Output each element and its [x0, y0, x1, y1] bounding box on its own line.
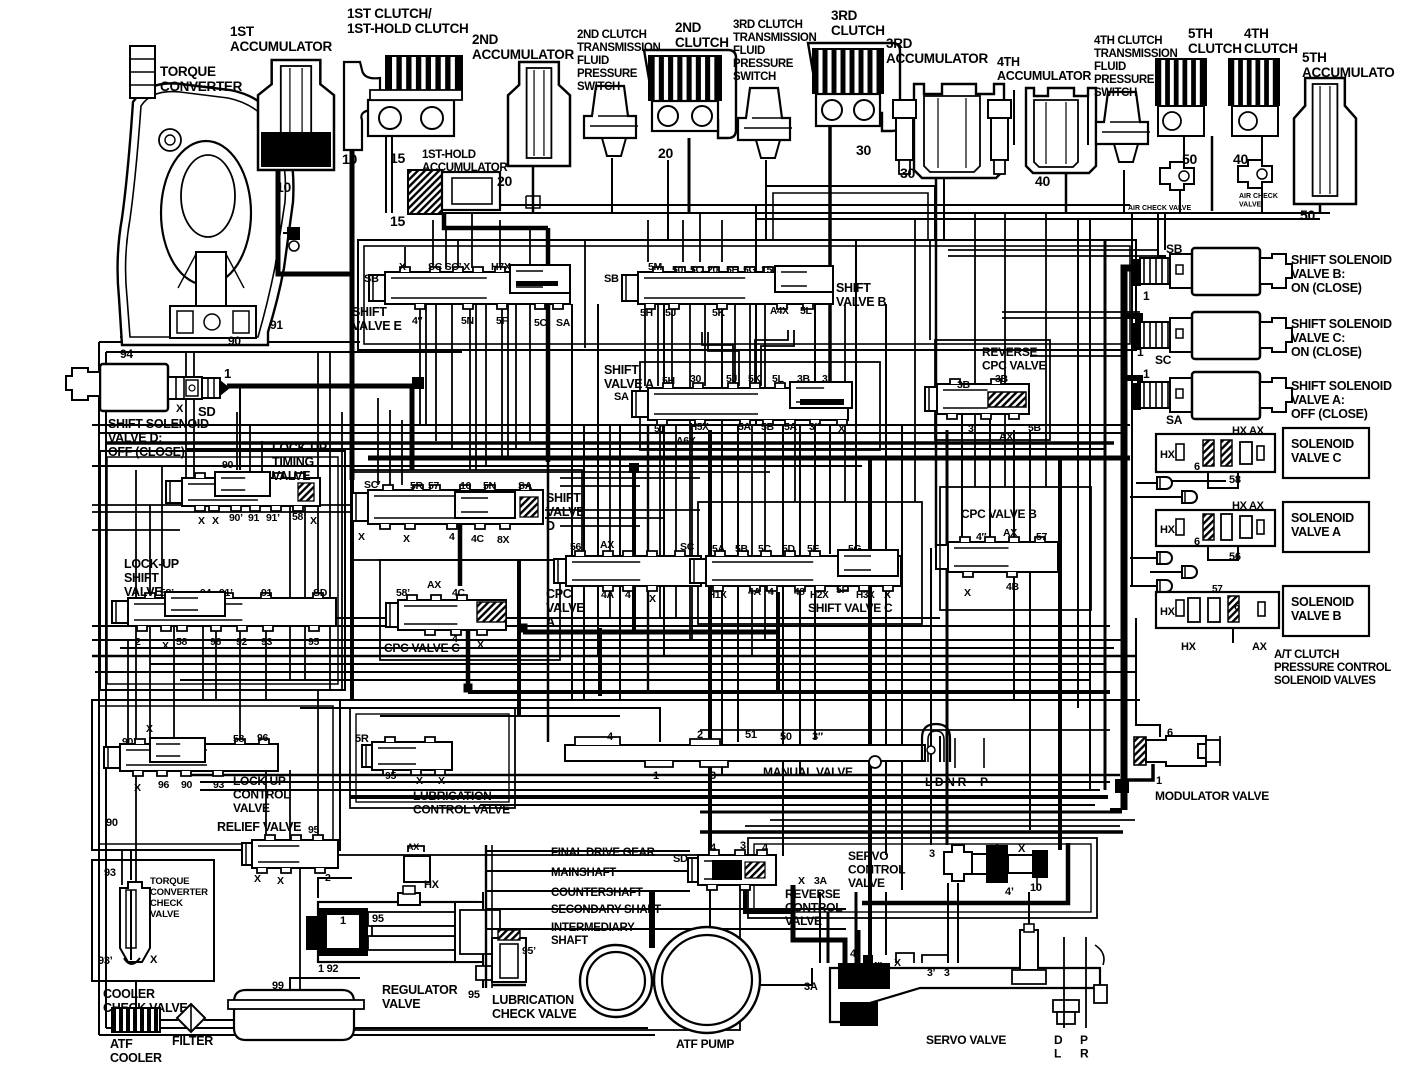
v598 [597, 304, 599, 656]
svg-text:VALVE: VALVE [382, 997, 420, 1011]
svg-text:ON (CLOSE): ON (CLOSE) [1291, 345, 1362, 359]
bus A7 [352, 471, 770, 473]
svg-text:91: 91 [248, 512, 260, 524]
svg-text:95: 95 [372, 913, 384, 925]
feeder 700 [699, 213, 701, 262]
enclosure lock-up control [92, 700, 340, 850]
left v250 [249, 425, 251, 478]
2nd accumulator [508, 62, 570, 166]
svg-text:90’: 90’ [122, 736, 136, 748]
poppet 2nd acc [526, 196, 540, 208]
svg-text:5J: 5J [665, 307, 677, 319]
svg-text:TRANSMISSION: TRANSMISSION [577, 42, 660, 54]
svg-text:96: 96 [257, 732, 269, 744]
svg-text:4A: 4A [601, 589, 615, 601]
svg-text:94: 94 [120, 347, 133, 361]
solenoid valve A label box [1283, 502, 1369, 552]
svg-text:VALVE: VALVE [233, 801, 270, 815]
servo thick L2 [827, 912, 830, 963]
lock-up timing valve spring [298, 483, 314, 501]
svg-text:TIMING: TIMING [272, 455, 314, 469]
svg-text:AX: AX [407, 842, 419, 852]
v722 [721, 304, 723, 775]
torque converter check valve [120, 882, 150, 964]
svg-text:4’: 4’ [850, 948, 859, 960]
shift solenoid valve B [1131, 248, 1292, 295]
svg-text:5H: 5H [640, 307, 653, 319]
svg-text:91: 91 [270, 318, 283, 332]
svg-text:51: 51 [745, 729, 757, 741]
left border2 [105, 352, 107, 1028]
enclosure lock-up region2 [107, 457, 338, 684]
bus C13 [380, 715, 620, 717]
svg-text:H7X: H7X [491, 261, 511, 273]
relief out95 [317, 690, 319, 840]
svg-text:1: 1 [653, 770, 659, 782]
svg-text:HX: HX [1160, 524, 1176, 536]
v1005 [1004, 213, 1006, 487]
cpcA top h1 [545, 509, 700, 511]
svg-text:VALVE A: VALVE A [604, 377, 654, 391]
svg-text:58’: 58’ [396, 587, 410, 599]
svg-text:40: 40 [1035, 173, 1050, 189]
bus C11 [180, 699, 1140, 701]
v947 thick [946, 430, 949, 845]
pipe 15 line [385, 136, 387, 213]
vE 470 [469, 304, 471, 470]
svg-text:5N: 5N [483, 480, 496, 492]
left border [98, 342, 100, 1035]
pipe 1st accumulator drop [278, 170, 352, 274]
svg-text:AIR CHECK: AIR CHECK [1239, 193, 1278, 200]
svg-text:VALVE: VALVE [546, 601, 584, 615]
v752 [751, 424, 753, 656]
servo drops [855, 892, 858, 963]
svg-text:SB: SB [1166, 242, 1183, 256]
thick 600 [598, 628, 602, 696]
svg-text:FLUID: FLUID [733, 45, 765, 57]
enclosure lubrication control [350, 708, 515, 808]
svg-text:5J: 5J [726, 373, 738, 385]
svg-text:VALVE: VALVE [124, 585, 162, 599]
svg-text:4: 4 [768, 586, 774, 598]
svg-text:2: 2 [135, 636, 141, 648]
svg-text:L: L [1054, 1047, 1061, 1061]
svg-text:CPC VALVE C: CPC VALVE C [384, 641, 460, 655]
v1046b [1045, 213, 1047, 487]
v765 [764, 304, 766, 640]
svg-text:10: 10 [1030, 882, 1042, 894]
mod 6 wire [1136, 618, 1160, 737]
svg-text:SHIFT SOLENOID: SHIFT SOLENOID [1291, 379, 1392, 393]
svg-text:L D N R: L D N R [925, 775, 967, 789]
feeder E 433 [432, 220, 434, 268]
enclosure lock-up region [100, 451, 345, 690]
4th clutch drop R [1261, 136, 1263, 160]
sc left pair a [1002, 311, 1140, 313]
cpcA top h3 [560, 525, 640, 527]
svg-text:3’: 3’ [968, 423, 977, 435]
svg-text:4″: 4″ [872, 961, 882, 972]
shift valve E secondary spool [510, 265, 570, 293]
torque converter [118, 46, 294, 345]
svg-text:5K: 5K [748, 373, 762, 385]
svg-text:CONTROL: CONTROL [785, 901, 842, 915]
modulator valve [1134, 736, 1220, 766]
vB 735 [734, 304, 736, 386]
svg-text:58: 58 [292, 511, 304, 523]
reservoir [228, 990, 364, 1040]
mod feed [1110, 808, 1122, 812]
svg-text:4TH: 4TH [997, 55, 1020, 69]
v870 thick [868, 458, 872, 963]
svg-text:4″: 4″ [976, 531, 987, 543]
servo thick rail [862, 843, 1068, 903]
left v305 [304, 505, 306, 626]
solenoid trunk [1124, 268, 1140, 810]
svg-text:57: 57 [428, 480, 440, 492]
svg-text:X: X [277, 875, 284, 887]
svg-text:5TH: 5TH [1188, 26, 1213, 41]
pipe 5th-4th clutch drop [1211, 136, 1214, 211]
left v216 [215, 626, 217, 700]
cooler check valve box [92, 860, 214, 981]
svg-text:COOLER: COOLER [110, 1051, 162, 1065]
svg-text:X: X [416, 775, 423, 787]
left v240 [239, 626, 241, 744]
enclosure servo region2 [754, 844, 1091, 912]
shift valve A right insert [790, 382, 852, 408]
enclosure lubrication control2 [356, 714, 509, 802]
svg-text:5B: 5B [735, 543, 749, 555]
v845 [844, 304, 846, 502]
svg-text:4: 4 [449, 531, 455, 543]
svg-text:3″: 3″ [809, 421, 820, 433]
svg-text:MAINSHAFT: MAINSHAFT [551, 867, 616, 879]
shift valve C [690, 551, 901, 591]
v676 [675, 424, 677, 618]
pipe 5th acc out [1319, 204, 1322, 213]
left v136 [135, 470, 137, 744]
v830b [829, 424, 831, 554]
pipe 3rd tfp drop [766, 160, 830, 186]
junction 4 port [765, 581, 775, 591]
check feed2 [1130, 557, 1157, 559]
svg-text:5K: 5K [712, 307, 726, 319]
svg-text:X: X [358, 531, 365, 543]
svg-text:VALVE: VALVE [785, 914, 822, 928]
svg-text:X: X [964, 587, 971, 599]
svg-text:5B: 5B [761, 421, 775, 433]
svg-text:CONVERTER: CONVERTER [150, 887, 208, 898]
svg-text:SOLENOID: SOLENOID [1291, 595, 1354, 609]
bus A3 [106, 441, 1114, 445]
svg-text:CLUTCH: CLUTCH [1244, 41, 1298, 56]
feeder E 446 [445, 228, 447, 268]
svg-text:SA: SA [1166, 413, 1183, 427]
svg-text:X: X [310, 515, 317, 527]
svg-text:SWITCH: SWITCH [577, 81, 620, 93]
bus C7 [150, 663, 1105, 665]
svg-text:1ST CLUTCH/: 1ST CLUTCH/ [347, 6, 432, 21]
svg-text:H5X: H5X [690, 422, 709, 433]
svg-text:90: 90 [181, 779, 193, 791]
svg-text:A6X: A6X [676, 435, 696, 447]
svg-text:VALVE B: VALVE B [836, 295, 886, 309]
shaft label countershaft [520, 890, 549, 892]
svg-text:1: 1 [340, 915, 346, 927]
svg-text:CONTROL: CONTROL [848, 863, 905, 877]
shaft label intermediary shaft [520, 928, 549, 930]
svg-text:5C: 5C [690, 264, 704, 276]
left v290b [289, 626, 291, 680]
svg-text:90: 90 [228, 334, 241, 348]
svg-text:VALVE: VALVE [546, 505, 584, 519]
2nd clutch [644, 50, 736, 138]
v738 [737, 424, 739, 742]
left v162 [161, 466, 163, 598]
svg-text:A4X: A4X [770, 306, 789, 317]
vB 645 [644, 304, 646, 386]
svg-text:SWITCH: SWITCH [1094, 87, 1137, 99]
bus C12b [700, 729, 1110, 731]
svg-text:CPC VALVE: CPC VALVE [982, 359, 1046, 373]
lock-up shift valve insert [165, 592, 225, 616]
svg-text:D: D [546, 519, 555, 533]
regulator valve [306, 886, 500, 980]
v915 [914, 220, 916, 502]
svg-text:3B: 3B [957, 379, 971, 391]
svg-text:1 92: 1 92 [318, 963, 338, 975]
svg-text:8X: 8X [497, 534, 510, 546]
lock-up control valve insert [150, 738, 205, 762]
svg-text:3A: 3A [814, 875, 828, 887]
left v194 [193, 352, 195, 478]
svg-text:93’: 93’ [98, 955, 113, 967]
shift solenoid valve A [1131, 372, 1292, 419]
4th clutch transmission fluid pressure switch [1096, 92, 1150, 162]
reverse control valve [688, 850, 776, 890]
pipe 3rd acc drop2 [943, 176, 945, 240]
left v203 [202, 626, 204, 700]
mod 1 wire [1122, 764, 1153, 780]
pipe air check row2 [756, 218, 1320, 220]
svg-text:CPC VALVE B: CPC VALVE B [961, 507, 1037, 521]
svg-text:5L: 5L [800, 305, 813, 317]
svg-text:2: 2 [325, 872, 331, 884]
v902 [901, 424, 903, 890]
svg-text:LUBRICATION: LUBRICATION [492, 993, 574, 1007]
vB 750 [749, 304, 751, 386]
svg-text:95: 95 [308, 824, 320, 836]
vE 516 [515, 304, 517, 449]
svg-text:CONTROL: CONTROL [233, 788, 290, 802]
svg-text:58: 58 [1229, 474, 1241, 486]
solenoid valve B label box [1283, 586, 1369, 636]
svg-text:SWITCH: SWITCH [733, 71, 776, 83]
svg-text:SHIFT: SHIFT [836, 281, 871, 295]
junction 634 top [629, 463, 639, 473]
v800 [799, 424, 801, 775]
check out1 [1136, 482, 1157, 484]
svg-text:5D: 5D [782, 543, 796, 555]
svg-text:SD: SD [313, 587, 328, 599]
left v237 [236, 412, 238, 470]
1st clutch / 1st-hold clutch [344, 55, 463, 150]
vD 390 [389, 410, 391, 485]
svg-text:AX: AX [1003, 527, 1017, 539]
svg-text:58: 58 [233, 733, 245, 745]
svg-text:SOLENOID: SOLENOID [1291, 511, 1354, 525]
v560b [547, 462, 550, 742]
svg-text:LOCK-UP: LOCK-UP [233, 774, 286, 788]
sc left pair b [1002, 317, 1140, 319]
bus B2 [92, 529, 180, 531]
lubrication check valve [492, 930, 526, 985]
sol c wires [1208, 466, 1238, 488]
shaft label final drive gear [520, 850, 549, 852]
sol a wires [1208, 540, 1238, 560]
cpcA top h2 [545, 517, 665, 519]
pipe SD branch [239, 386, 241, 470]
v690 [689, 304, 691, 640]
svg-text:5M: 5M [648, 261, 663, 273]
sc elbow [1124, 316, 1140, 326]
left v174 [173, 626, 175, 744]
bus B3 [560, 477, 700, 479]
svg-text:SC SC’ X: SC SC’ X [428, 261, 470, 273]
svg-text:X: X [649, 593, 656, 605]
servo control valve [944, 845, 1048, 883]
svg-text:91: 91 [261, 587, 273, 599]
svg-text:95’: 95’ [522, 945, 536, 957]
svg-text:PRESSURE: PRESSURE [733, 58, 794, 70]
svg-text:A: A [546, 615, 555, 629]
svg-text:95: 95 [468, 989, 480, 1001]
feeder E 458 [457, 240, 459, 268]
svg-text:6: 6 [1194, 461, 1200, 473]
svg-text:48: 48 [794, 587, 805, 598]
svg-text:SB: SB [604, 273, 619, 285]
vE 436 [435, 304, 437, 441]
svg-text:X: X [162, 640, 169, 652]
svg-text:OFF (CLOSE): OFF (CLOSE) [1291, 407, 1368, 421]
svg-text:X: X [254, 873, 261, 885]
svg-text:X: X [838, 423, 845, 435]
shift valve C right insert [838, 550, 898, 576]
svg-text:3RD: 3RD [831, 8, 858, 23]
check feed4 [1130, 585, 1157, 587]
svg-text:ON (CLOSE): ON (CLOSE) [1291, 281, 1362, 295]
svg-text:4A: 4A [748, 586, 762, 598]
svg-text:1: 1 [1143, 289, 1150, 303]
lock-up timing valve [166, 473, 320, 511]
svg-text:57: 57 [1212, 584, 1223, 595]
svg-text:SA: SA [518, 480, 533, 492]
svg-text:D: D [1054, 1033, 1063, 1047]
v1014 [1013, 430, 1015, 700]
5th clutch drop L [1183, 136, 1185, 162]
pipe 1st clutch trunk2 [350, 480, 354, 700]
svg-text:PRESSURE: PRESSURE [577, 68, 638, 80]
enclosure central top inner [364, 246, 1130, 344]
vD 402 [401, 420, 403, 485]
svg-text:SA: SA [556, 317, 571, 329]
svg-text:5C: 5C [758, 543, 772, 555]
svg-text:5G: 5G [743, 264, 757, 276]
svg-text:CLUTCH: CLUTCH [831, 23, 885, 38]
v1st-hold thick [444, 214, 548, 228]
vE 420 [419, 304, 421, 425]
vE 508 [507, 304, 509, 458]
enclosure shift valve A row [640, 362, 880, 450]
shift valve B right insert [775, 266, 833, 292]
vA 692 [691, 424, 693, 640]
svg-text:4C: 4C [452, 587, 466, 599]
svg-text:96: 96 [210, 636, 222, 648]
air check valve left [1160, 162, 1194, 190]
svg-text:X: X [884, 589, 891, 601]
svg-text:REGULATOR: REGULATOR [382, 983, 458, 997]
divider E-B [584, 240, 586, 348]
left v150b [149, 626, 151, 744]
shift valve D insert [455, 492, 515, 518]
svg-text:VALVE B: VALVE B [1291, 609, 1341, 623]
servo valve [830, 924, 1107, 1028]
svg-text:TRANSMISSION: TRANSMISSION [733, 32, 816, 44]
bottom rail2 [106, 1027, 648, 1029]
vA elbow 755 [755, 330, 788, 386]
v962 [961, 402, 963, 540]
vB 672 [671, 304, 673, 386]
relief drop2 [289, 770, 291, 840]
svg-text:HX: HX [424, 879, 440, 891]
svg-text:HX: HX [1160, 606, 1176, 618]
feeder E 500 [499, 220, 501, 268]
svg-text:SOLENOID VALVES: SOLENOID VALVES [1274, 675, 1376, 687]
check feed [1130, 496, 1182, 498]
svg-text:AX: AX [999, 431, 1013, 443]
svg-text:FLUID: FLUID [577, 55, 609, 67]
svg-text:3: 3 [944, 967, 950, 979]
shift valve A [632, 383, 848, 425]
svg-text:FINAL DRIVE GEAR: FINAL DRIVE GEAR [551, 847, 656, 859]
left vcool2 [135, 770, 137, 885]
svg-text:ACCUMULATOR: ACCUMULATOR [422, 162, 508, 174]
svg-text:5H: 5H [662, 375, 675, 387]
svg-text:VALVE: VALVE [150, 909, 179, 920]
servo thick L3 [856, 930, 861, 963]
regulator right wires [482, 892, 484, 988]
v783 [782, 424, 784, 856]
svg-text:2ND: 2ND [472, 32, 499, 47]
nested box 766-935 outer [766, 186, 935, 240]
svg-text:20: 20 [707, 264, 719, 276]
svg-text:3A: 3A [804, 981, 818, 993]
svg-text:MODULATOR VALVE: MODULATOR VALVE [1155, 789, 1269, 803]
vE 476 [475, 304, 477, 470]
vE 502 [501, 304, 503, 458]
left v342 [341, 412, 343, 690]
v1030 [1029, 430, 1031, 830]
check valves near solenoid A/B [1157, 552, 1197, 592]
enclosure central top [358, 240, 1136, 350]
feeder E 405 [404, 247, 406, 268]
1st acc node circle top [289, 241, 299, 251]
bus D2 [200, 781, 1110, 783]
svg-text:AX: AX [427, 579, 441, 591]
feeder 683 [682, 220, 684, 262]
